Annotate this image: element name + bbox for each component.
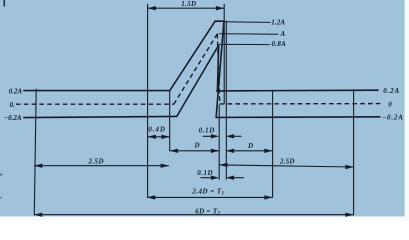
extension line at period end x=353.6 bbox=[353, 89, 355, 215]
wire: right band lower tolerance line -0.2A bbox=[216, 116, 380, 119]
wire: left band upper tolerance line 0.2A bbox=[23, 90, 170, 92]
svg-text:D: D bbox=[194, 141, 200, 149]
dimension D (before fall) bbox=[170, 150, 220, 152]
wire: pulse peak top segment 1.2A bbox=[215, 20, 224, 22]
svg-text:6D = T2: 6D = T2 bbox=[195, 207, 220, 216]
svg-text:0: 0 bbox=[388, 101, 392, 109]
svg-text:2.4D = T1: 2.4D = T1 bbox=[191, 188, 224, 197]
svg-text:−0.2A: −0.2A bbox=[4, 114, 22, 122]
dimension 2.5D right bbox=[219, 165, 353, 167]
svg-text:D: D bbox=[247, 142, 253, 150]
leader and label A bbox=[219, 33, 279, 35]
extension line after pulse x=272.6 bbox=[272, 90, 274, 198]
wire: left band nominal zero line (dashed) bbox=[16, 103, 174, 105]
svg-text:0.2A: 0.2A bbox=[383, 87, 400, 95]
wire: falling edge nominal (dashed) bbox=[217, 34, 220, 104]
wire: left band lower tolerance line -0.2A bbox=[23, 116, 177, 117]
extension line at nominal fall x=219.2 bbox=[218, 105, 220, 180]
wire: rising ramp nominal (dashed) bbox=[174, 34, 218, 104]
extension line at period start x=34 bbox=[34, 89, 36, 216]
svg-text:0.1D: 0.1D bbox=[197, 169, 213, 177]
wire: falling edge outer tolerance bbox=[216, 21, 224, 117]
dimension D (after fall) bbox=[226, 150, 273, 152]
svg-text:−0.2A: −0.2A bbox=[382, 113, 404, 121]
dimension 2.4D = T1 pulse region bbox=[147, 196, 273, 198]
svg-text:0.2A: 0.2A bbox=[9, 87, 23, 95]
svg-text:0.1D: 0.1D bbox=[199, 126, 215, 134]
dimension 6D = T2 full period bbox=[34, 214, 354, 216]
wire: falling edge inner tolerance bbox=[217, 45, 218, 91]
extension line at fall window x=226.3 bbox=[225, 21, 227, 180]
dimension 1.5D rise window bbox=[148, 7, 225, 9]
wire: rising ramp upper tolerance bbox=[170, 21, 215, 90]
wire: rising ramp inner tolerance bbox=[177, 45, 219, 116]
dimension 0.4D bbox=[148, 136, 170, 138]
wire: right band nominal zero line (dashed) bbox=[220, 103, 382, 105]
extension line at ramp foot x=147.6 bbox=[147, 4, 149, 198]
dimension 0.1D lower (fall window) bbox=[201, 177, 213, 179]
dimension 2.5D left bbox=[34, 165, 169, 167]
svg-text:1.5D: 1.5D bbox=[181, 0, 196, 8]
leader and label 1.2A bbox=[224, 21, 271, 24]
svg-text:0.8A: 0.8A bbox=[272, 40, 287, 48]
wire: right band upper tolerance line 0.2A bbox=[216, 89, 379, 92]
leader and label 0.8A bbox=[219, 43, 269, 45]
scan artifact speck left edge bbox=[0, 174, 2, 176]
svg-text:2.5D: 2.5D bbox=[88, 158, 104, 166]
extension line at fall end x=224.2 bbox=[223, 4, 225, 104]
dimension 0.1D upper (fall window) bbox=[203, 135, 213, 137]
scan artifact tick top-left bbox=[3, 0, 5, 7]
svg-text:0.4D: 0.4D bbox=[148, 126, 165, 134]
extension line at nominal pulse start x=169.7 bbox=[169, 91, 171, 151]
svg-text:1.2A: 1.2A bbox=[271, 18, 285, 26]
svg-text:A: A bbox=[280, 30, 286, 38]
svg-text:2.5D: 2.5D bbox=[279, 158, 295, 166]
svg-text:0.: 0. bbox=[10, 101, 16, 109]
